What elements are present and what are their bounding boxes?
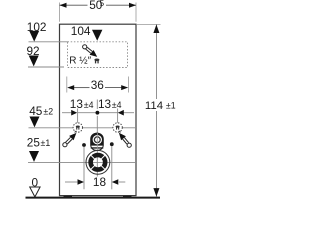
drain ring notches [91, 155, 105, 169]
drain dark ring [91, 155, 106, 170]
flush bend capsule [91, 133, 104, 150]
dim 114 arrow up [153, 25, 159, 34]
small stop valve icon [94, 59, 99, 64]
dim 13 ext left (above circle) [77, 109, 79, 124]
dim 50.5 arrow left [60, 3, 67, 8]
level 102 triangle [29, 31, 39, 42]
dim 36 line [74, 87, 90, 89]
svg-text:36: 36 [91, 78, 105, 92]
svg-text:18: 18 [93, 175, 107, 189]
bolt line right [111, 146, 113, 189]
dim 50.5 extension left [59, 3, 61, 22]
dim 36 arrow right [121, 85, 128, 90]
svg-text:13: 13 [70, 97, 84, 111]
dim 13 ext right (above circle) [117, 109, 119, 124]
dim 18 line [65, 181, 77, 183]
centerline vertical [96, 116, 98, 177]
svg-text:±4: ±4 [112, 100, 122, 110]
dim 50.5 extension right [135, 3, 137, 22]
level 25 line (through drain center) [28, 161, 136, 163]
dim 114 line [155, 25, 157, 100]
foot left [64, 196, 73, 198]
dim 36 ext left [66, 77, 68, 93]
capsule divider [91, 147, 104, 148]
wavy arrow right [119, 131, 121, 133]
centerline over capsule [96, 133, 98, 150]
svg-text:±2: ±2 [43, 107, 53, 117]
level 0 open triangle [30, 187, 40, 197]
svg-text:±4: ±4 [84, 100, 94, 110]
svg-text:R ½″: R ½″ [69, 55, 91, 66]
water circle left icon [76, 126, 80, 130]
module outline [60, 24, 137, 195]
level 92 line [28, 66, 64, 68]
svg-text:114: 114 [145, 100, 163, 112]
dim 114 extension top [137, 23, 161, 25]
drain outer circle [86, 150, 110, 174]
svg-text:±1: ±1 [41, 138, 51, 148]
bolt dot left [82, 143, 86, 147]
wavy arrow top (flexible supply) [83, 45, 87, 49]
level 92 triangle [29, 56, 39, 67]
svg-text:13: 13 [98, 97, 112, 111]
dim 13 line [62, 112, 71, 114]
dim 13 arrow right [118, 110, 124, 116]
svg-text:±1: ±1 [166, 100, 176, 110]
dim 36 arrow left [67, 85, 74, 90]
centerline tick above dot [96, 100, 98, 110]
104 triangle [92, 30, 102, 41]
flush pipe circle [93, 135, 102, 144]
level 45 line (through water circles) [29, 127, 74, 129]
dim 114 arrow down [153, 188, 159, 197]
level 25 triangle [29, 151, 39, 162]
floor line [26, 197, 161, 199]
svg-text:5: 5 [100, 0, 105, 8]
dashed service box [68, 42, 128, 68]
dim 36 ext right [128, 77, 130, 93]
svg-text:25: 25 [27, 136, 41, 150]
water circle right (dashed) [113, 123, 122, 132]
bolt line left [83, 147, 85, 190]
water circle left (dashed) [73, 123, 82, 132]
water circle right icon [116, 126, 120, 130]
dim 18 arrow left [78, 179, 85, 185]
dim 50.5 line [60, 4, 88, 6]
dim 13 arrow left [71, 110, 77, 116]
dim 50.5 arrow right [129, 3, 136, 8]
dim 13 center dot [96, 111, 100, 115]
svg-text:45: 45 [29, 104, 43, 118]
level 102 line [29, 41, 68, 43]
dim 18 arrow right [112, 179, 119, 185]
svg-text:104: 104 [71, 24, 91, 38]
wavy arrow left [75, 131, 77, 133]
bolt dot right [110, 142, 114, 146]
foot right [123, 196, 132, 198]
level 45 triangle [30, 117, 40, 128]
